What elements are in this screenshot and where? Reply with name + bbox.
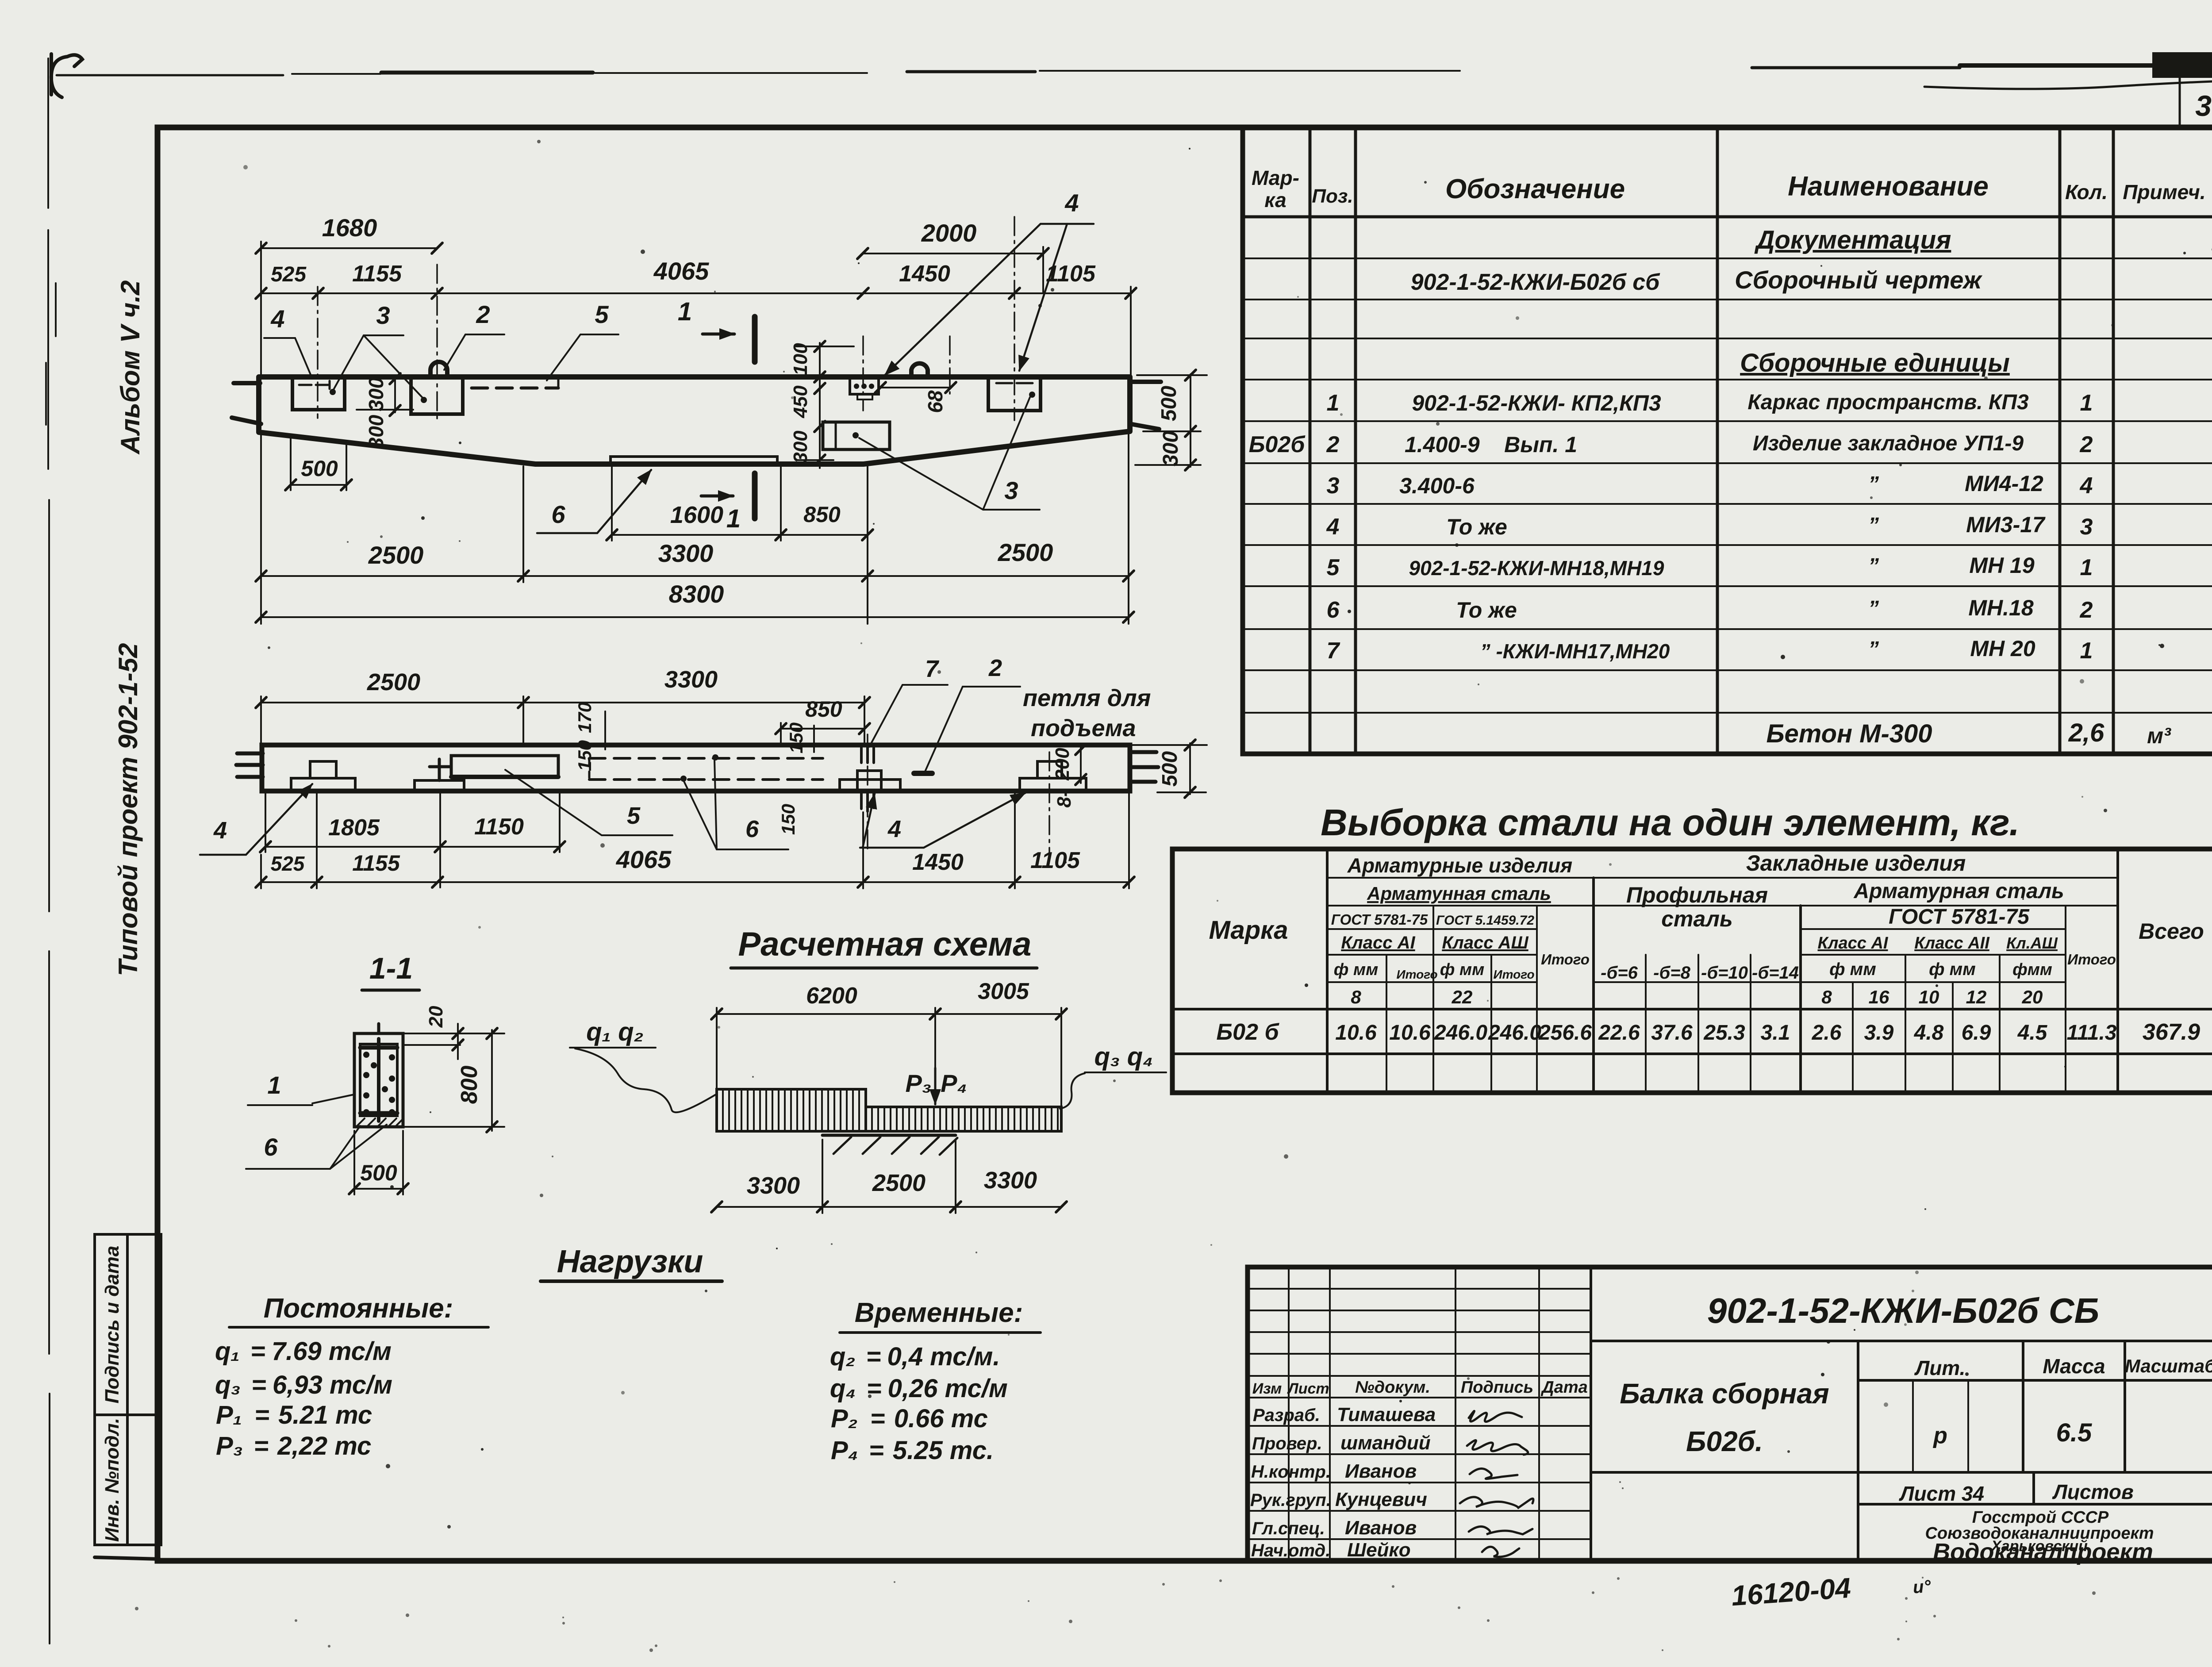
svg-text:256.6: 256.6 — [1538, 1021, 1592, 1045]
svg-text:1105: 1105 — [1046, 261, 1096, 287]
svg-text:2500: 2500 — [368, 541, 424, 569]
load block left (hatched) — [717, 1089, 866, 1131]
svg-text:1155: 1155 — [352, 851, 400, 876]
centerline axis recess 1 — [317, 287, 319, 418]
beam 1 recess pos.3 left — [292, 378, 345, 410]
P3 P4 with arrow — [905, 1068, 967, 1104]
svg-text:Документация: Документация — [1754, 226, 1951, 254]
svg-text:1: 1 — [267, 1071, 281, 1099]
svg-text:4: 4 — [2080, 473, 2093, 499]
section stirrup cage — [360, 1039, 397, 1121]
svg-text:Нагрузки: Нагрузки — [557, 1244, 703, 1279]
svg-text:100: 100 — [790, 343, 811, 376]
svg-text:ф мм: ф мм — [1829, 960, 1876, 979]
svg-text:20: 20 — [2022, 987, 2043, 1007]
dim 8-200 — [1052, 744, 1086, 808]
svg-text:Мар-: Мар- — [1252, 166, 1299, 189]
svg-text:Листов: Листов — [2052, 1480, 2133, 1503]
svg-text:МН 19: МН 19 — [1969, 553, 2034, 578]
svg-text:То же: То же — [1446, 515, 1507, 539]
svg-text:800: 800 — [457, 1066, 482, 1104]
svg-text:Лист: Лист — [1286, 1380, 1329, 1397]
svg-text:Временные:: Временные: — [855, 1298, 1023, 1328]
axis of plate pos.4 — [862, 336, 864, 411]
svg-text:Итого: Итого — [2067, 951, 2116, 968]
svg-text:Р₃ =2,22 тс: Р₃ =2,22 тс — [216, 1432, 371, 1460]
svg-text:Всего: Всего — [2139, 919, 2204, 944]
beam 2 right 500 dim — [1133, 740, 1207, 798]
svg-text:2: 2 — [476, 300, 490, 328]
plate pos.5 — [451, 756, 558, 777]
svg-text:8: 8 — [1351, 987, 1361, 1007]
svg-text:Р₁ =5.21 тс: Р₁ =5.21 тс — [216, 1401, 372, 1429]
beam2 bottom dim row 1805/1150 — [260, 792, 565, 887]
svg-text:3300: 3300 — [664, 666, 718, 693]
svg-text:Марка: Марка — [1209, 916, 1288, 945]
svg-text:6.9: 6.9 — [1962, 1021, 1991, 1045]
svg-text:300: 300 — [365, 377, 388, 411]
svg-text:Изделие закладное УП1-9: Изделие закладное УП1-9 — [1753, 432, 2024, 455]
scheme top dims 6200/3005 — [711, 979, 1067, 1109]
dim 8300 — [256, 580, 1134, 622]
svg-text:2000: 2000 — [921, 219, 977, 247]
svg-text:Профильная: Профильная — [1626, 883, 1768, 907]
svg-text:1450: 1450 — [912, 849, 964, 875]
svg-text:Расчетная схема: Расчетная схема — [738, 926, 1032, 963]
dim 800 — [405, 1028, 504, 1132]
svg-text:МИ4-12: МИ4-12 — [1965, 471, 2043, 496]
svg-text:Итого: Итого — [1493, 968, 1534, 981]
svg-text:3.400-6: 3.400-6 — [1399, 473, 1475, 498]
svg-text:500: 500 — [360, 1160, 397, 1185]
svg-text:4.5: 4.5 — [2017, 1021, 2048, 1045]
svg-text:Разраб.: Разраб. — [1253, 1406, 1320, 1425]
svg-text:То же: То же — [1456, 598, 1517, 622]
beam 1 right rebar stubs — [1130, 382, 1161, 429]
svg-text:р: р — [1932, 1423, 1947, 1448]
svg-text:Нач.отд.: Нач.отд. — [1251, 1541, 1330, 1560]
svg-text:”: ” — [1868, 554, 1879, 578]
svg-text:10.6: 10.6 — [1335, 1021, 1377, 1045]
svg-text:шмандий: шмандий — [1340, 1432, 1431, 1454]
svg-text:5: 5 — [595, 300, 609, 328]
svg-text:4.8: 4.8 — [1914, 1021, 1944, 1045]
bottom plate pos.6 — [611, 457, 777, 464]
svg-text:Каркас пространств. КП3: Каркас пространств. КП3 — [1747, 391, 2029, 414]
svg-text:2500: 2500 — [998, 538, 1053, 566]
svg-text:1: 1 — [726, 504, 741, 533]
68 dimension — [875, 382, 956, 413]
beam 1 outline — [259, 377, 1130, 464]
svg-text:2.6: 2.6 — [1812, 1021, 1842, 1045]
lifting loop pos.2 right — [911, 363, 928, 377]
label 4 (left) — [264, 305, 312, 379]
svg-text:ф мм: ф мм — [1334, 960, 1378, 979]
svg-text:Подпись: Подпись — [1461, 1378, 1533, 1397]
beam 1 recess pos.3 second — [411, 378, 463, 414]
label 4 beam2 right (two leaders) — [860, 793, 1025, 848]
svg-text:Р₂ =0.66 тс: Р₂ =0.66 тс — [831, 1404, 988, 1433]
svg-text:”: ” — [1868, 472, 1879, 496]
q3 q4 label — [1060, 1042, 1166, 1109]
svg-text:150: 150 — [786, 722, 806, 753]
svg-text:902-1-52-КЖИ-Б02б СБ: 902-1-52-КЖИ-Б02б СБ — [1707, 1291, 2099, 1330]
svg-text:1: 1 — [2080, 638, 2093, 664]
svg-text:300: 300 — [790, 430, 811, 463]
svg-text:ГОСТ 5781-75: ГОСТ 5781-75 — [1889, 905, 2030, 929]
recess 1 embedded mark — [299, 381, 330, 389]
axis of right pad — [1048, 752, 1050, 856]
dim 2000 — [857, 219, 1048, 292]
scan artifact: top-left curl — [51, 54, 82, 97]
svg-text:37: 37 — [2195, 89, 2212, 122]
beam 2 dim 850 — [776, 697, 870, 744]
svg-text:Масштаб: Масштаб — [2125, 1356, 2212, 1376]
svg-text:4: 4 — [1326, 514, 1340, 540]
lifting loop pos.2 left — [430, 362, 447, 377]
leader dot in recess 2 — [421, 397, 427, 403]
svg-text:170: 170 — [574, 702, 595, 733]
svg-text:4: 4 — [1064, 189, 1079, 217]
svg-text:3300: 3300 — [984, 1167, 1037, 1194]
svg-text:6200: 6200 — [806, 983, 857, 1009]
lifting loop mark pos.2 (bottom view) — [914, 771, 932, 776]
svg-text:петля для: петля для — [1023, 685, 1151, 711]
page number box 37 — [2180, 76, 2212, 127]
svg-text:Поз.: Поз. — [1312, 185, 1353, 207]
svg-text:q₄ =0,26 тс/м: q₄ =0,26 тс/м — [830, 1374, 1008, 1403]
svg-text:и°: и° — [1912, 1577, 1932, 1598]
svg-text:Типовой проект 902-1-52: Типовой проект 902-1-52 — [113, 643, 143, 976]
svg-text:500: 500 — [301, 456, 338, 481]
svg-text:2: 2 — [2080, 597, 2093, 623]
specification table texts — [1249, 166, 2206, 748]
svg-text:37.6: 37.6 — [1651, 1021, 1693, 1045]
load block right (hatched) — [866, 1107, 1061, 1131]
support pad pos.4 left — [291, 761, 355, 790]
svg-text:2: 2 — [988, 655, 1002, 681]
svg-text:№докум.: №докум. — [1355, 1378, 1430, 1397]
top bar tick — [377, 1024, 380, 1033]
svg-text:Иванов: Иванов — [1345, 1517, 1417, 1539]
label 4 (right, two leaders) — [885, 189, 1094, 375]
svg-text:Водоканалпроект: Водоканалпроект — [1933, 1539, 2153, 1565]
svg-text:525: 525 — [271, 263, 307, 286]
steel summary table grid — [1172, 849, 2212, 1093]
dim 20 — [403, 1006, 504, 1059]
svg-text:ка: ка — [1264, 188, 1286, 211]
svg-text:2: 2 — [1326, 432, 1340, 457]
beam2 bottom dim row 525/1155/4065/1450/1105 — [256, 793, 1134, 888]
svg-text:4: 4 — [213, 817, 227, 844]
svg-text:Арматурные изделия: Арматурные изделия — [1347, 854, 1573, 877]
svg-text:ф мм: ф мм — [1929, 960, 1976, 979]
leader dot in recess 1 — [330, 389, 336, 395]
svg-text:q₁ =7.69 тс/м: q₁ =7.69 тс/м — [215, 1337, 392, 1366]
svg-text:-б=8: -б=8 — [1653, 963, 1690, 983]
label 6 (bottom plate) — [537, 470, 651, 533]
axis of pos.7 — [867, 734, 868, 849]
svg-text:500: 500 — [1157, 386, 1181, 421]
svg-text:Альбом V ч.2: Альбом V ч.2 — [115, 280, 145, 455]
svg-text:Итого: Итого — [1396, 968, 1437, 981]
Временные heading — [840, 1298, 1041, 1333]
svg-text:Выборка стали на один элемент: Выборка стали на один элемент, кг. — [1321, 802, 2020, 843]
dim row 2500/3300/2500 — [256, 433, 1134, 624]
svg-text:7: 7 — [925, 656, 940, 682]
label 5 (hidden line) — [547, 300, 618, 380]
q1 q2 label — [570, 1018, 716, 1112]
scan artifact: top edge lines — [57, 52, 2212, 89]
svg-text:q₂ =0,4 тс/м.: q₂ =0,4 тс/м. — [830, 1342, 1000, 1371]
svg-text:850: 850 — [805, 697, 842, 722]
label 4 beam2 left — [200, 784, 312, 855]
svg-text:ГОСТ 5.1459.72: ГОСТ 5.1459.72 — [1436, 913, 1534, 928]
svg-text:Р₄ =5.25 тс.: Р₄ =5.25 тс. — [831, 1436, 994, 1465]
svg-text:Б02б.: Б02б. — [1686, 1425, 1763, 1457]
small dim ticks at 170/150 — [605, 711, 814, 752]
vertical dims 100/450/300 at plate 4 — [790, 341, 854, 468]
svg-text:МН 20: МН 20 — [1970, 636, 2035, 661]
svg-text:5: 5 — [1327, 555, 1340, 580]
svg-text:Инв. №подл.: Инв. №подл. — [101, 1418, 123, 1542]
svg-text:12: 12 — [1966, 987, 1987, 1007]
svg-text:6: 6 — [1327, 597, 1340, 623]
svg-text:Лист 34: Лист 34 — [1899, 1482, 1984, 1505]
svg-text:Лит.: Лит. — [1914, 1356, 1966, 1379]
svg-text:300: 300 — [1159, 431, 1183, 466]
axis at 68 dim — [949, 336, 951, 394]
dim 1680 — [256, 214, 442, 376]
svg-text:Рук.груп.: Рук.груп. — [1250, 1490, 1331, 1510]
leader dot in recess 3 — [1029, 392, 1035, 398]
svg-text:ф мм: ф мм — [1440, 960, 1484, 979]
svg-text:Р₄: Р₄ — [941, 1069, 967, 1097]
svg-text:-б=6: -б=6 — [1601, 963, 1638, 983]
Постоянные heading — [229, 1293, 488, 1327]
svg-text:2500: 2500 — [367, 669, 420, 695]
svg-text:3300: 3300 — [747, 1172, 800, 1199]
svg-text:902-1-52-КЖИ- КП2,КП3: 902-1-52-КЖИ- КП2,КП3 — [1412, 391, 1661, 415]
svg-text:1: 1 — [1327, 390, 1340, 416]
svg-text:Балка сборная: Балка сборная — [1620, 1378, 1829, 1410]
svg-text:Класс АII: Класс АII — [1914, 934, 1990, 953]
svg-text:м³: м³ — [2147, 723, 2171, 748]
dim 500 bottom-left — [285, 436, 352, 490]
scan artifact: left margin line — [46, 58, 56, 1644]
svg-text:4: 4 — [270, 305, 284, 333]
svg-text:Постоянные:: Постоянные: — [264, 1293, 453, 1324]
title block texts — [1250, 1291, 2212, 1565]
svg-text:”: ” — [1868, 514, 1879, 537]
svg-text:1150: 1150 — [474, 814, 524, 840]
title block grid — [1248, 1267, 2212, 1561]
svg-text:7: 7 — [1327, 638, 1340, 664]
svg-text:8300: 8300 — [669, 580, 724, 608]
svg-text:Арматунная сталь: Арматунная сталь — [1367, 883, 1551, 904]
hidden line pos.5 — [472, 387, 558, 390]
svg-text:фмм: фмм — [2012, 960, 2052, 979]
svg-text:902-1-52-КЖИ-МН18,МН19: 902-1-52-КЖИ-МН18,МН19 — [1409, 557, 1664, 580]
svg-text:8: 8 — [1821, 987, 1832, 1007]
svg-text:q₃ q₄: q₃ q₄ — [1094, 1042, 1153, 1071]
small vertical dims 170/150 — [574, 702, 806, 835]
label 3 (right, two leaders) — [859, 397, 1040, 510]
svg-text:1.400-9 Вып. 1: 1.400-9 Вып. 1 — [1405, 432, 1577, 457]
svg-text:Обозначение: Обозначение — [1445, 174, 1625, 204]
recess depth dim 300/300 — [357, 373, 413, 449]
section outline — [354, 1033, 403, 1127]
support pad pos.4 right — [1020, 761, 1086, 790]
svg-text:Класс АI: Класс АI — [1341, 933, 1415, 953]
svg-text:6: 6 — [745, 816, 759, 842]
hidden line end tick — [557, 378, 560, 388]
svg-text:-б=14: -б=14 — [1752, 963, 1799, 983]
svg-text:Дата: Дата — [1540, 1378, 1588, 1397]
svg-text:Р₃: Р₃ — [905, 1069, 931, 1097]
svg-text:16: 16 — [1869, 987, 1889, 1007]
svg-text:МИ3-17: МИ3-17 — [1966, 512, 2046, 537]
svg-text:246.0: 246.0 — [1488, 1021, 1541, 1045]
Нагрузки heading — [541, 1244, 722, 1281]
label 7 beam2 — [869, 656, 948, 747]
title block signatures — [1460, 1411, 1533, 1557]
svg-text:1: 1 — [2080, 555, 2093, 580]
label 2 (loop) — [444, 300, 504, 370]
section mark 1 upper — [678, 297, 755, 362]
svg-text:22: 22 — [1452, 987, 1473, 1007]
beam 1 left rebar stubs — [232, 383, 261, 424]
svg-text:Примеч.: Примеч. — [2123, 181, 2205, 204]
svg-text:111.3: 111.3 — [2067, 1021, 2117, 1045]
svg-text:Кл.АШ: Кл.АШ — [2006, 934, 2058, 952]
svg-text:3: 3 — [1004, 476, 1018, 504]
svg-text:1: 1 — [2080, 390, 2093, 416]
bottom hatch strip — [357, 1118, 403, 1126]
svg-text:1-1: 1-1 — [369, 952, 413, 985]
svg-text:2500: 2500 — [872, 1170, 926, 1196]
svg-text:”: ” — [1868, 597, 1879, 620]
support line with hatch — [822, 1135, 957, 1155]
recess 3 embedded mark — [996, 382, 1033, 384]
svg-text:150: 150 — [778, 804, 799, 835]
svg-text:68: 68 — [924, 390, 947, 413]
svg-text:Тимашева: Тимашева — [1337, 1404, 1436, 1425]
axis recess 3 — [1014, 217, 1015, 420]
svg-text:Кунцевич: Кунцевич — [1335, 1489, 1427, 1510]
svg-text:Арматурная сталь: Арматурная сталь — [1853, 880, 2064, 903]
svg-text:сталь: сталь — [1661, 906, 1732, 931]
svg-text:300: 300 — [365, 415, 388, 449]
svg-text:3300: 3300 — [658, 539, 714, 567]
svg-text:3.1: 3.1 — [1761, 1021, 1790, 1045]
svg-text:6: 6 — [264, 1133, 278, 1161]
label 1 leader — [248, 1071, 354, 1105]
embedded plate pos.4 with dots — [850, 378, 879, 399]
leader dots on hidden rebar — [712, 754, 718, 761]
svg-text:Сборочный чертеж: Сборочный чертеж — [1735, 266, 1982, 294]
svg-text:8-: 8- — [1053, 790, 1075, 807]
left margin boxes strip — [95, 1234, 161, 1559]
svg-text:6: 6 — [551, 500, 565, 528]
svg-text:200: 200 — [1052, 748, 1073, 781]
centerline axis loop/recess 2 — [436, 265, 438, 419]
svg-text:22.6: 22.6 — [1598, 1021, 1640, 1045]
temporary loads list — [830, 1342, 1008, 1465]
svg-text:Иванов: Иванов — [1345, 1460, 1417, 1482]
svg-text:1105: 1105 — [1030, 848, 1080, 873]
svg-text:3.9: 3.9 — [1864, 1021, 1894, 1045]
svg-text:3: 3 — [2080, 514, 2093, 540]
steel summary table texts — [1209, 851, 2204, 1045]
svg-text:5: 5 — [627, 803, 641, 829]
svg-text:подъема: подъема — [1031, 715, 1136, 741]
svg-text:Сборочные единицы: Сборочные единицы — [1740, 349, 2010, 377]
svg-text:Б02 б: Б02 б — [1216, 1019, 1279, 1045]
dim row 525/1155/4065/1450/1105 — [256, 257, 1136, 376]
svg-text:Гл.спец.: Гл.спец. — [1252, 1519, 1325, 1538]
label 5 beam2 — [505, 770, 672, 835]
svg-text:q₁ q₂: q₁ q₂ — [586, 1018, 644, 1046]
drawing frame — [157, 127, 2212, 1561]
scheme title — [731, 926, 1037, 968]
svg-text:Подпись и дата: Подпись и дата — [101, 1246, 123, 1404]
svg-text:Класс АI: Класс АI — [1818, 934, 1889, 953]
right end dims 500/300 — [1135, 370, 1207, 470]
section 1-1 title — [362, 952, 419, 990]
rebar dots — [363, 1052, 395, 1115]
svg-text:10: 10 — [1919, 987, 1939, 1007]
svg-text:Бетон М-300: Бетон М-300 — [1766, 719, 1932, 748]
svg-text:3005: 3005 — [978, 979, 1029, 1004]
svg-text:25.3: 25.3 — [1703, 1021, 1745, 1045]
svg-text:Изм: Изм — [1252, 1380, 1282, 1397]
svg-text:525: 525 — [271, 852, 305, 875]
svg-text:Итого: Итого — [1541, 951, 1590, 968]
beam 2 right rebar stubs — [1130, 752, 1158, 782]
svg-text:1680: 1680 — [322, 214, 377, 242]
label 2 петля для подъема — [925, 655, 1151, 772]
svg-text:1155: 1155 — [352, 261, 402, 287]
svg-text:500: 500 — [1158, 751, 1182, 787]
svg-text:1600: 1600 — [670, 502, 723, 528]
embedded box pos.3 side view — [823, 422, 890, 449]
svg-text:10.6: 10.6 — [1389, 1021, 1431, 1045]
svg-text:450: 450 — [790, 385, 811, 419]
svg-text:3: 3 — [1327, 473, 1340, 499]
svg-text:Б02б: Б02б — [1249, 432, 1306, 457]
beam 2 outline — [262, 745, 1130, 791]
label 3 (left, two leaders) — [333, 301, 424, 399]
hidden rebar end dash — [588, 760, 591, 778]
scheme bottom dims 3300/2500/3300 — [711, 1140, 1067, 1213]
svg-text:3: 3 — [376, 301, 390, 329]
label 6 section — [246, 1125, 387, 1169]
svg-text:Закладные изделия: Закладные изделия — [1746, 851, 1966, 876]
svg-text:q₃ =6,93 тс/м: q₃ =6,93 тс/м — [215, 1371, 392, 1399]
svg-text:Н.контр.: Н.контр. — [1251, 1462, 1331, 1482]
svg-text:-б=10: -б=10 — [1701, 963, 1748, 983]
beam 2 left rebar stubs — [236, 753, 263, 777]
beam 2 top dim row 2500/3300 — [256, 666, 870, 744]
dim 500 section — [349, 1131, 408, 1195]
svg-text:4065: 4065 — [653, 257, 709, 285]
svg-text:6.5: 6.5 — [2056, 1418, 2092, 1447]
svg-text:367.9: 367.9 — [2143, 1019, 2200, 1045]
svg-text:150: 150 — [574, 740, 595, 771]
permanent loads list — [215, 1337, 392, 1460]
specification table grid — [1243, 127, 2212, 754]
